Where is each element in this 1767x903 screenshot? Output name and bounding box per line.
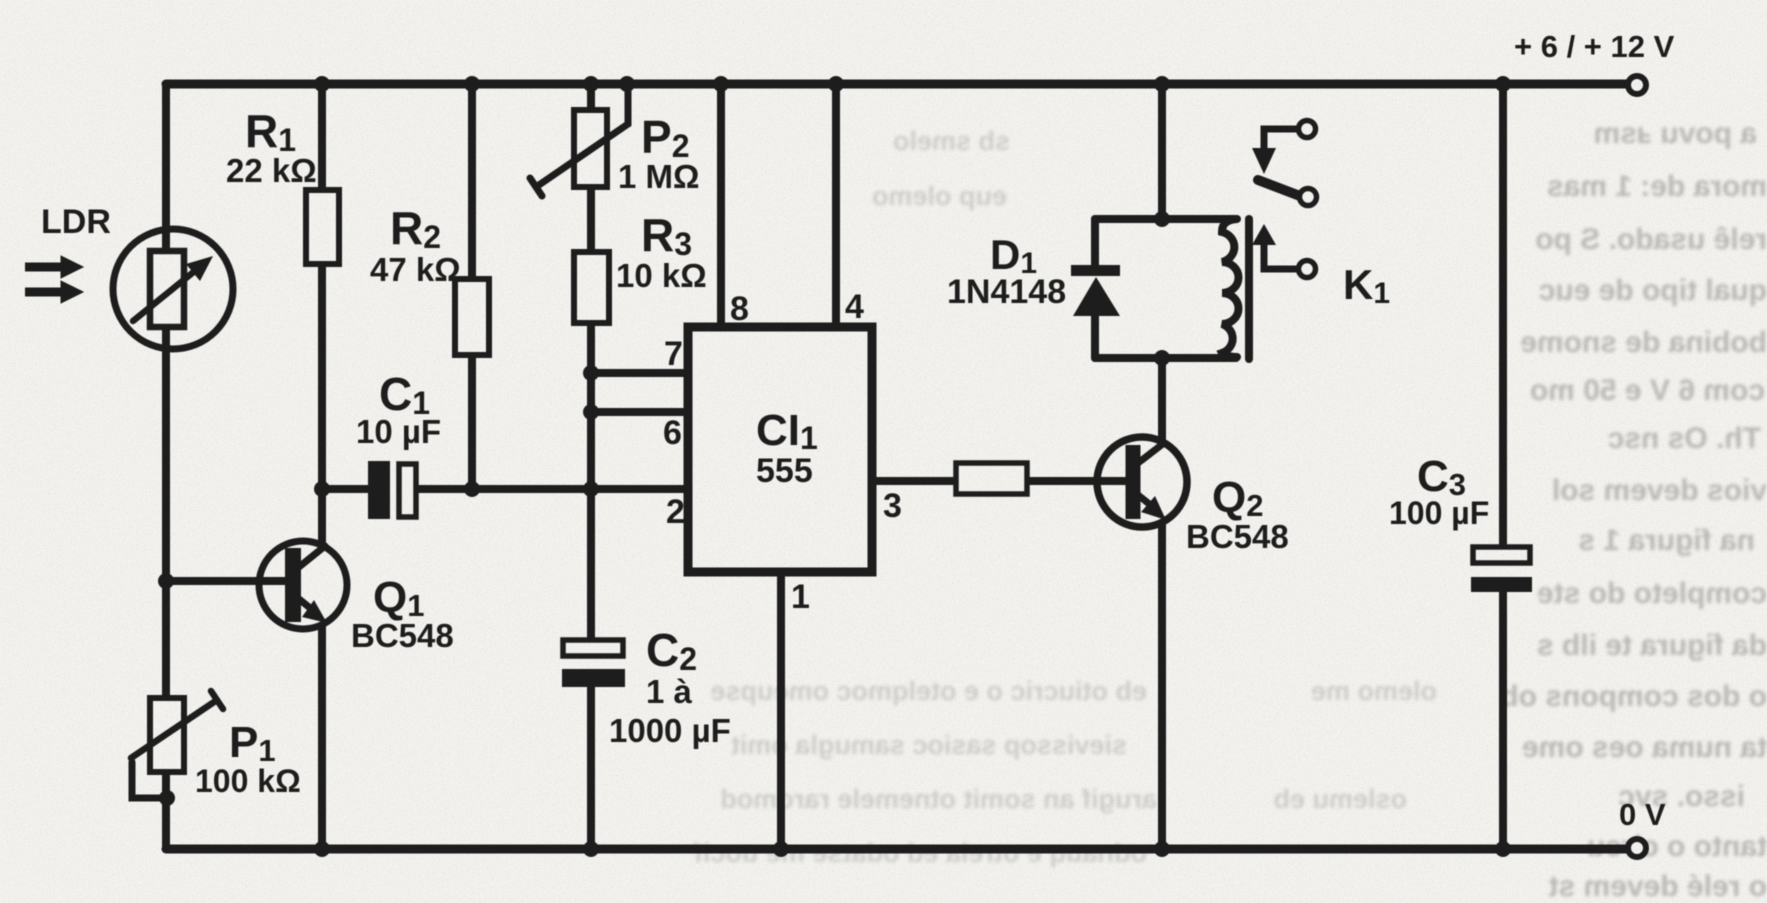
- wire Q1 base: [166, 577, 289, 585]
- wire bottom 0V rail: [166, 845, 1628, 854]
- wire D1 branch: [1091, 219, 1099, 358]
- potentiometer P1 100k body: [131, 691, 223, 772]
- op-amp/timer IC CI1 555: [688, 327, 872, 572]
- node pin8 top: [713, 76, 729, 92]
- wire R2 vertical: [468, 84, 476, 489]
- node relay top junction: [1154, 211, 1170, 227]
- node pin6 junction: [583, 404, 599, 420]
- resistor R2 47k: [455, 279, 489, 355]
- transistor Q2 BC548: [1080, 437, 1187, 527]
- node pin7 junction: [583, 365, 599, 381]
- wire top supply rail: [166, 80, 1628, 89]
- terminal +6/+12V: [1628, 76, 1646, 94]
- wire 555 pin 4: [832, 84, 840, 327]
- node R2 bottom junction: [464, 481, 480, 497]
- relay K1 core bar: [1245, 219, 1253, 359]
- LDR light arrows: [25, 256, 83, 303]
- relay K1 NC contact: [1252, 121, 1316, 175]
- wire left vertical branch (LDR / Q1 / P1): [162, 84, 170, 849]
- transistor Q1 BC548: [240, 541, 347, 629]
- resistor R1 22k: [306, 190, 339, 264]
- capacitor C1 10uF: [368, 461, 416, 519]
- wire P1 wiper to bottom terminal: [132, 762, 166, 798]
- relay K1 actuation arrow and NO contact: [1252, 224, 1316, 278]
- node C3 bottom: [1495, 841, 1511, 857]
- node C2 bottom: [583, 841, 599, 857]
- node Q1 base junction: [158, 573, 174, 589]
- resistor R4 2.2k: [956, 463, 1027, 494]
- wire 555 pin 7: [591, 369, 684, 377]
- node Q2 emitter bottom: [1154, 841, 1170, 857]
- wire relay top: [1095, 215, 1236, 223]
- node P2 wiper top: [619, 76, 635, 92]
- relay K1 coil: [1222, 219, 1239, 357]
- wire 555 pin 1 to 0V: [777, 576, 785, 849]
- node pin4 top: [828, 76, 844, 92]
- node Q1 emitter bottom: [314, 841, 330, 857]
- node R1 bottom / C1 junction: [314, 481, 330, 497]
- node C3 top: [1495, 76, 1511, 92]
- wire supply to relay: [1158, 84, 1166, 219]
- wire C3 vertical: [1499, 84, 1507, 849]
- node P1 wiper junction: [159, 790, 175, 806]
- wire C1 to 555 pin 2: [322, 485, 684, 493]
- diode D1 1N4148: [1071, 265, 1120, 316]
- capacitor C3 100uF: [1471, 547, 1532, 592]
- wire R4 to Q2 base: [1027, 477, 1128, 485]
- wire 555 pin 3 to R4: [876, 477, 956, 485]
- wire relay bottom: [1095, 354, 1236, 362]
- LDR photoresistor: [113, 229, 233, 349]
- relay K1 moving blade contact: [1258, 180, 1317, 206]
- wire P2 / R3 / C2 vertical: [587, 84, 595, 849]
- node R2 top: [464, 76, 480, 92]
- wire 555 pin 8: [717, 84, 725, 327]
- node pin1 bottom: [773, 841, 789, 857]
- wire Q2 collector / emitter vertical: [1158, 358, 1166, 849]
- terminal 0V: [1628, 839, 1646, 857]
- resistor R3 10k: [574, 252, 609, 323]
- wire 555 pin 6: [591, 408, 684, 416]
- potentiometer P2 1M body: [530, 84, 628, 196]
- node pin2 junction: [583, 481, 599, 497]
- bleed-through mirrored text (decorative): [693, 117, 1767, 903]
- node P2 top: [583, 76, 599, 92]
- node relay feed top: [1154, 76, 1170, 92]
- capacitor C2 electrolytic: [562, 640, 625, 687]
- node relay bottom junction: [1154, 350, 1170, 366]
- node R1 top: [314, 76, 330, 92]
- wire R1 / Q1 collector-emitter vertical: [318, 84, 326, 849]
